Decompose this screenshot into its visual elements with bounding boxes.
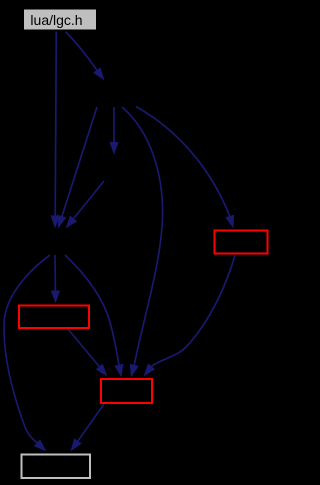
edge ltm.h -> lobject.h (C to D) [66,181,105,229]
edge lua.h -> luaconf.h (G to H) [71,404,105,452]
node lmem.h (right red box, label hidden) [215,231,268,254]
node lua/lgc.h (top, gray filled box) [23,9,97,31]
edge lobject.h -> lua.h (D to G, right-descending spline) [65,255,123,378]
node llimits.h (left red box, label hidden) [19,306,89,329]
edge lstate.h -> lua.h (B to G, long right-bulging spline) [122,107,163,378]
edge lstate.h -> ltm.h (B to C, short vertical) [109,107,118,155]
edge lua/lgc.h -> lobject.h (A to D, long vertical) [51,32,60,229]
node luaconf.h (bottom light-gray box, label hidden) [22,455,91,479]
edge llimits.h -> lua.h (F to G) [68,329,108,377]
edge lua/lgc.h -> lstate.h (A to B, diagonal) [66,32,105,81]
edge lstate.h -> lmem.h (B to E, curve to right box) [136,107,234,229]
svg-text:lua/lgc.h: lua/lgc.h [30,12,82,28]
edge lstate.h -> lobject.h (B to D) [58,107,97,229]
edge lobject.h -> luaconf.h (D to H, long left spline) [4,255,50,452]
node lua.h (middle red box, label hidden) [101,379,152,403]
edge lmem.h -> lua.h (E to G, curve down-left) [144,255,236,377]
edge lobject.h -> llimits.h (D to F, short vertical) [51,255,60,304]
